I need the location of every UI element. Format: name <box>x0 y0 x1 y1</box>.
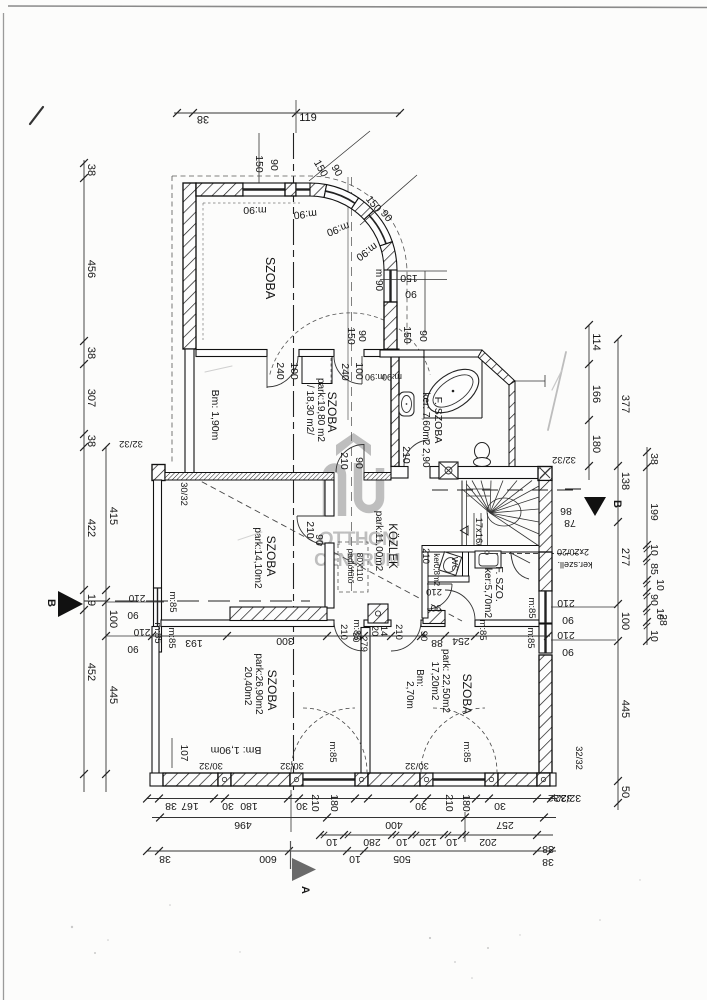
svg-text:400: 400 <box>385 819 403 831</box>
svg-text:90: 90 <box>313 534 325 546</box>
svg-text:park: 22,50m2: park: 22,50m2 <box>440 649 451 713</box>
svg-text:38: 38 <box>159 853 171 865</box>
svg-text:32/32: 32/32 <box>119 438 143 449</box>
svg-text:280: 280 <box>363 836 381 848</box>
svg-text:padlófűtő: padlófűtő <box>346 549 356 584</box>
svg-text:90: 90 <box>417 330 429 342</box>
svg-text:167: 167 <box>181 800 199 812</box>
svg-text:210: 210 <box>338 452 350 470</box>
svg-text:10: 10 <box>349 853 361 865</box>
svg-text:78: 78 <box>564 517 576 529</box>
svg-text:150: 150 <box>401 326 413 344</box>
svg-text:277: 277 <box>619 548 631 566</box>
svg-text:80X110: 80X110 <box>355 553 365 582</box>
svg-text:210: 210 <box>557 597 575 609</box>
svg-text:38: 38 <box>85 347 97 359</box>
svg-text:100: 100 <box>288 362 300 380</box>
svg-text:210: 210 <box>128 592 145 603</box>
svg-text:30/32: 30/32 <box>280 760 304 771</box>
svg-text:240: 240 <box>339 363 351 381</box>
svg-text:m:85: m:85 <box>461 741 472 762</box>
svg-text:107: 107 <box>178 745 189 762</box>
svg-text:38: 38 <box>648 453 660 465</box>
svg-text:14: 14 <box>378 626 389 637</box>
svg-text:m:85: m:85 <box>525 627 536 648</box>
svg-text:50: 50 <box>619 786 631 798</box>
svg-text:496: 496 <box>234 819 252 831</box>
svg-text:180: 180 <box>460 794 472 812</box>
svg-text:ker: 7,60m2 2,90: ker: 7,60m2 2,90 <box>420 392 431 467</box>
svg-text:210: 210 <box>426 586 442 597</box>
svg-text:B: B <box>611 500 623 508</box>
svg-text:85: 85 <box>648 563 660 575</box>
svg-text:90: 90 <box>418 631 429 642</box>
svg-text:279: 279 <box>358 636 369 652</box>
svg-text:199: 199 <box>648 503 660 521</box>
svg-text:17,20m2: 17,20m2 <box>429 662 440 701</box>
svg-text:377: 377 <box>619 395 631 413</box>
svg-text:180: 180 <box>590 435 602 453</box>
svg-text:210: 210 <box>400 446 412 464</box>
svg-text:90: 90 <box>127 609 139 620</box>
svg-text:SZOBA: SZOBA <box>325 392 339 433</box>
svg-text:10: 10 <box>446 836 458 848</box>
svg-text:90: 90 <box>648 594 660 606</box>
svg-text:38: 38 <box>85 164 97 176</box>
svg-text:210: 210 <box>557 629 575 641</box>
svg-text:445: 445 <box>619 700 631 718</box>
svg-text:2,70m: 2,70m <box>404 681 415 709</box>
svg-text:150: 150 <box>400 272 418 284</box>
svg-text:m:90: m:90 <box>382 372 402 382</box>
svg-text:F. SZO.: F. SZO. <box>493 566 505 602</box>
svg-text:150: 150 <box>345 327 357 345</box>
svg-text:452: 452 <box>85 663 97 681</box>
svg-text:SZOBA: SZOBA <box>265 670 279 711</box>
svg-text:210: 210 <box>443 794 455 812</box>
svg-text:B: B <box>45 599 57 607</box>
svg-text:m:85: m:85 <box>166 627 177 648</box>
svg-text:WC: WC <box>450 557 460 571</box>
svg-text:10: 10 <box>654 579 666 591</box>
svg-text:210: 210 <box>309 794 321 812</box>
svg-text:38: 38 <box>85 435 97 447</box>
svg-text:254: 254 <box>452 635 470 647</box>
svg-text:/ 18,30 m2/: / 18,30 m2/ <box>304 385 315 435</box>
svg-text:10: 10 <box>396 836 408 848</box>
svg-text:100: 100 <box>353 362 365 380</box>
svg-text:m:85: m:85 <box>477 619 488 640</box>
svg-text:505: 505 <box>393 853 411 865</box>
svg-text:90: 90 <box>356 330 368 342</box>
svg-text:20,40m2: 20,40m2 <box>242 667 253 706</box>
svg-text:30: 30 <box>296 800 308 812</box>
svg-text:park:19,80 m2: park:19,80 m2 <box>315 378 326 442</box>
svg-text:10: 10 <box>648 544 660 556</box>
svg-text:600: 600 <box>259 853 277 865</box>
svg-text:10: 10 <box>648 630 660 642</box>
svg-text:114: 114 <box>590 333 602 351</box>
svg-text:210: 210 <box>133 626 150 637</box>
svg-text:119: 119 <box>299 112 317 124</box>
svg-text:30: 30 <box>415 800 427 812</box>
svg-text:ker.szell.: ker.szell. <box>557 560 592 570</box>
svg-text:210: 210 <box>393 624 404 640</box>
svg-text:28: 28 <box>657 614 669 626</box>
svg-text:202: 202 <box>479 836 497 848</box>
svg-text:38: 38 <box>542 856 554 868</box>
svg-text:38: 38 <box>197 113 209 125</box>
svg-text:Bm: 1,90m: Bm: 1,90m <box>210 744 261 756</box>
svg-text:30: 30 <box>222 800 234 812</box>
svg-text:307: 307 <box>85 389 97 407</box>
svg-text:193: 193 <box>185 637 203 649</box>
svg-text:180: 180 <box>240 800 258 812</box>
svg-text:30/32: 30/32 <box>199 760 223 771</box>
svg-text:32/32: 32/32 <box>555 792 581 804</box>
svg-text:88: 88 <box>431 637 443 649</box>
svg-text:90: 90 <box>268 159 280 171</box>
svg-text:0,8m2: 0,8m2 <box>432 564 441 587</box>
svg-text:park:26,90m2: park:26,90m2 <box>253 653 264 715</box>
svg-text:257: 257 <box>496 819 514 831</box>
svg-text:KÖZLEK: KÖZLEK <box>386 523 398 569</box>
svg-text:10: 10 <box>326 836 338 848</box>
svg-text:445: 445 <box>107 686 119 704</box>
svg-text:SZOBA: SZOBA <box>263 257 277 300</box>
svg-text:F. SZOBA: F. SZOBA <box>432 397 444 444</box>
svg-text:90: 90 <box>353 457 365 469</box>
svg-text:90: 90 <box>127 643 139 654</box>
svg-text:90: 90 <box>562 614 574 626</box>
svg-text:30/32: 30/32 <box>405 760 429 771</box>
svg-text:m 90: m 90 <box>373 269 384 292</box>
svg-text:90: 90 <box>431 602 442 613</box>
svg-text:30: 30 <box>494 800 506 812</box>
svg-text:240: 240 <box>274 362 286 380</box>
svg-text:m:90: m:90 <box>243 204 267 216</box>
svg-text:120: 120 <box>419 836 437 848</box>
svg-text:300: 300 <box>276 635 294 647</box>
svg-text:ker:5,70m2: ker:5,70m2 <box>482 568 493 618</box>
svg-text:SZOBA: SZOBA <box>460 674 474 715</box>
svg-text:180: 180 <box>328 794 340 812</box>
svg-text:32/32: 32/32 <box>552 454 576 465</box>
svg-text:m:85: m:85 <box>167 591 178 612</box>
svg-text:30/32: 30/32 <box>178 482 189 506</box>
svg-text:2x20/20: 2x20/20 <box>557 547 589 557</box>
svg-text:park:11,00m2: park:11,00m2 <box>373 511 384 572</box>
svg-text:100: 100 <box>619 612 631 630</box>
svg-text:Bm: 1,90m: Bm: 1,90m <box>209 390 221 441</box>
svg-text:166: 166 <box>590 385 602 403</box>
svg-text:m:85: m:85 <box>327 741 338 762</box>
svg-text:m:85: m:85 <box>526 597 537 618</box>
svg-text:38: 38 <box>165 800 177 812</box>
svg-text:32/32: 32/32 <box>573 746 584 770</box>
svg-text:19: 19 <box>85 594 97 606</box>
svg-text:100: 100 <box>107 610 119 628</box>
svg-text:90: 90 <box>562 646 574 658</box>
svg-text:86: 86 <box>560 505 572 517</box>
svg-text:210: 210 <box>338 624 349 640</box>
svg-text:422: 422 <box>85 519 97 537</box>
svg-text:park:14,10m2: park:14,10m2 <box>252 527 263 589</box>
svg-text:210: 210 <box>420 548 431 564</box>
svg-text:138: 138 <box>619 472 631 490</box>
svg-text:415: 415 <box>107 507 119 525</box>
svg-text:90: 90 <box>405 288 417 300</box>
svg-text:m:90: m:90 <box>293 207 317 221</box>
svg-text:SZOBA: SZOBA <box>264 536 278 577</box>
svg-text:38: 38 <box>542 843 554 855</box>
svg-text:A: A <box>299 886 311 894</box>
svg-text:456: 456 <box>85 260 97 278</box>
svg-text:m:85: m:85 <box>152 622 163 643</box>
